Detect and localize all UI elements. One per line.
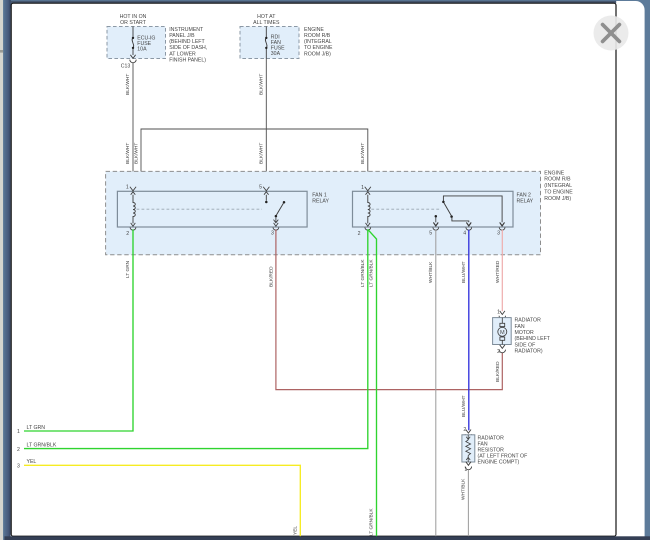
engine room R/B note text (relay block) bbox=[544, 170, 573, 202]
FAN1 relay coil bbox=[133, 195, 135, 224]
svg-text:SIDE OF DASH,: SIDE OF DASH, bbox=[169, 45, 207, 51]
FAN2 pin 2 connector bbox=[365, 223, 371, 230]
close button halo bbox=[594, 16, 629, 51]
instrument panel J/B note text bbox=[169, 27, 207, 64]
svg-text:(INTEGRAL: (INTEGRAL bbox=[544, 183, 572, 189]
svg-text:ENGINE COMPT): ENGINE COMPT) bbox=[478, 459, 520, 465]
wire WHT/BLK from FAN2 pin 5 down off-page bbox=[435, 230, 437, 536]
svg-text:5: 5 bbox=[429, 231, 432, 237]
FAN2 lead from arm to pin 4 bbox=[452, 218, 469, 223]
svg-text:AT LOWER: AT LOWER bbox=[169, 51, 196, 57]
wire YEL from node 3 down off-page bbox=[24, 465, 300, 536]
svg-text:WHT/RED: WHT/RED bbox=[495, 260, 501, 283]
FAN1 switch lower dot bbox=[275, 215, 278, 218]
resistor connector pin 2 bbox=[465, 430, 471, 438]
svg-text:ENGINE: ENGINE bbox=[304, 27, 324, 33]
svg-text:LT GRN/BLK: LT GRN/BLK bbox=[27, 442, 57, 448]
FAN2 fixed contact dot (pin 5 side) bbox=[435, 215, 438, 218]
wire LT GRN/BLK branch from FAN2 pin 2 down off-page bbox=[368, 229, 377, 536]
connector C13 symbol bbox=[130, 55, 136, 63]
wire WHT/BLK from resistor pin 1 down off-page bbox=[467, 470, 469, 536]
svg-text:4: 4 bbox=[463, 231, 466, 237]
instrument panel J/B dashed box bbox=[107, 27, 166, 59]
close button X glyph bbox=[603, 25, 620, 42]
fuse ECU-IG terminal dots bbox=[132, 37, 134, 39]
wire LT GRN/BLK from FAN2 pin 2 to node 2 bbox=[24, 229, 368, 448]
svg-text:BLU/WHT: BLU/WHT bbox=[461, 261, 467, 283]
FAN2 common feed from pin 3 (top route) bbox=[443, 196, 502, 222]
svg-text:ROOM J/B): ROOM J/B) bbox=[304, 51, 331, 57]
svg-text:BLU/WHT: BLU/WHT bbox=[461, 395, 467, 417]
FAN1 switch arm pivot dot bbox=[283, 201, 286, 204]
FAN1 pin 3 connector bbox=[273, 223, 279, 230]
svg-text:1: 1 bbox=[17, 429, 20, 435]
svg-text:3: 3 bbox=[17, 463, 20, 469]
svg-text:TO ENGINE: TO ENGINE bbox=[304, 45, 333, 51]
svg-text:BLK/WHT: BLK/WHT bbox=[133, 143, 139, 164]
svg-text:2: 2 bbox=[126, 231, 129, 237]
svg-text:ROOM J/B): ROOM J/B) bbox=[544, 196, 571, 202]
svg-text:FINISH PANEL): FINISH PANEL) bbox=[169, 58, 206, 64]
svg-text:YEL: YEL bbox=[27, 459, 37, 465]
FAN2 pin 3 connector bbox=[499, 223, 505, 230]
relay FAN 1 RELAY box bbox=[117, 191, 307, 227]
svg-text:WHT/BLK: WHT/BLK bbox=[428, 261, 434, 283]
svg-text:BLK/RED: BLK/RED bbox=[268, 266, 274, 287]
svg-text:5: 5 bbox=[259, 185, 262, 191]
svg-text:WHT/BLK: WHT/BLK bbox=[461, 478, 467, 500]
motor connector pin 2 bbox=[499, 345, 505, 353]
svg-text:(INTEGRAL: (INTEGRAL bbox=[304, 39, 332, 45]
svg-text:BLK/WHT: BLK/WHT bbox=[125, 143, 131, 164]
FAN1 pin 1 connector bbox=[130, 187, 136, 195]
scrollbar notch bbox=[0, 50, 3, 53]
navy bottom bar bbox=[5, 536, 650, 540]
node: HOT AT ALL TIMES feed label bbox=[253, 14, 280, 26]
FAN1 switch arm (open) bbox=[276, 203, 283, 215]
relay FAN 1 RELAY name label bbox=[312, 192, 329, 204]
svg-text:1: 1 bbox=[126, 185, 129, 191]
fuse RDI FAN terminal dots bbox=[265, 37, 267, 39]
FAN2 pin 4 connector bbox=[466, 223, 472, 230]
node: HOT IN ON OR START feed label bbox=[120, 14, 147, 26]
svg-text:FAN: FAN bbox=[515, 324, 525, 330]
resistor RADIATOR FAN RESISTOR box bbox=[462, 435, 475, 462]
FAN2 switch lower dot bbox=[450, 215, 453, 218]
svg-text:PANEL J/B: PANEL J/B bbox=[169, 33, 195, 39]
FAN1 pin 2 connector bbox=[130, 223, 136, 230]
motor RADIATOR FAN MOTOR box bbox=[493, 318, 512, 345]
FAN2 switch arm (closed toward pin 4) bbox=[444, 203, 451, 216]
fuse ECU-IG value label bbox=[137, 36, 155, 53]
FAN2 pin 3 arrowhead bbox=[500, 222, 505, 225]
svg-text:30A: 30A bbox=[271, 51, 281, 57]
FAN1 switch fixed contact from pin 5 bbox=[265, 195, 267, 201]
svg-text:MOTOR: MOTOR bbox=[515, 330, 534, 336]
left backdrop band gradient bbox=[3, 0, 11, 540]
FAN2 lead from contact to pin 5 with arrowhead bbox=[433, 218, 438, 226]
relay FAN 2 RELAY name label bbox=[517, 192, 534, 204]
fuse ECU-IG 10A symbol bbox=[132, 27, 134, 56]
relay FAN 2 RELAY box bbox=[353, 191, 514, 227]
svg-text:C13: C13 bbox=[121, 64, 131, 70]
engine room R/B dashed box (relay block) bbox=[106, 171, 541, 254]
svg-text:YEL: YEL bbox=[293, 526, 299, 535]
svg-text:1: 1 bbox=[361, 185, 364, 191]
svg-text:M: M bbox=[500, 330, 505, 336]
svg-text:(BEHIND LEFT: (BEHIND LEFT bbox=[515, 336, 551, 342]
svg-text:RADIATOR: RADIATOR bbox=[478, 435, 505, 441]
svg-text:LT GRN: LT GRN bbox=[125, 260, 131, 278]
browser scrollbar strip far left bbox=[0, 0, 3, 540]
wire BLK/WHT bus tee bbox=[141, 129, 368, 187]
wire BLU/WHT from FAN2 pin 4 to resistor pin 2 bbox=[468, 230, 470, 430]
svg-text:TO ENGINE: TO ENGINE bbox=[544, 190, 573, 196]
fuse RDI FAN 30A symbol bbox=[265, 27, 267, 59]
motor M symbol bbox=[498, 318, 507, 345]
top shadow line above diagram border bbox=[11, 1, 617, 3]
svg-text:OR START: OR START bbox=[120, 20, 147, 26]
FAN1 internal dashed link bbox=[137, 208, 263, 210]
svg-text:10A: 10A bbox=[137, 47, 147, 53]
engine room R/B fuse dashed box bbox=[240, 27, 299, 59]
FAN2 pin 5 connector bbox=[433, 223, 439, 230]
svg-text:LT GRN/BLK: LT GRN/BLK bbox=[369, 508, 375, 536]
svg-text:RELAY: RELAY bbox=[312, 198, 329, 204]
svg-text:SIDE OF: SIDE OF bbox=[515, 342, 536, 348]
svg-text:2: 2 bbox=[17, 447, 20, 453]
svg-text:ROOM R/B: ROOM R/B bbox=[544, 177, 571, 183]
svg-text:LT GRN/BLK: LT GRN/BLK bbox=[360, 259, 366, 287]
svg-text:BLK/WHT: BLK/WHT bbox=[125, 74, 131, 95]
FAN1 pin 5 connector bbox=[263, 187, 269, 195]
fuse RDI FAN value label bbox=[271, 35, 285, 58]
resistor note text bbox=[478, 435, 528, 465]
svg-text:LT GRN: LT GRN bbox=[27, 425, 46, 431]
wire BLK/WHT from RDI FAN fuse to FAN1 relay pin 5 bbox=[265, 59, 267, 187]
svg-text:RELAY: RELAY bbox=[517, 198, 534, 204]
svg-text:1: 1 bbox=[464, 467, 467, 473]
svg-text:3: 3 bbox=[271, 231, 274, 237]
engine room R/B note text (fuse) bbox=[304, 27, 333, 58]
svg-text:2: 2 bbox=[358, 231, 361, 237]
wire BLK/RED from FAN1 pin 3 to motor pin 2 bbox=[276, 229, 502, 389]
wire WHT/RED from FAN2 pin 3 to motor pin 1 bbox=[501, 230, 503, 311]
resistor zigzag symbol bbox=[466, 435, 471, 462]
svg-text:2: 2 bbox=[497, 349, 500, 355]
svg-text:BLK/WHT: BLK/WHT bbox=[360, 143, 366, 164]
svg-text:BLK/WHT: BLK/WHT bbox=[259, 74, 265, 95]
svg-text:ENGINE: ENGINE bbox=[544, 170, 564, 176]
svg-text:LT GRN/BLK: LT GRN/BLK bbox=[369, 259, 375, 287]
FAN2 pin 1 connector bbox=[365, 187, 371, 195]
wire segment diagonal into FAN1 pin 1 bbox=[134, 177, 141, 187]
FAN1 switch lead to pin 3 with arrowhead bbox=[274, 217, 279, 223]
svg-text:BLK/RED: BLK/RED bbox=[495, 361, 501, 382]
svg-text:ROOM R/B: ROOM R/B bbox=[304, 33, 331, 39]
svg-text:RADIATOR: RADIATOR bbox=[515, 317, 542, 323]
svg-text:RADIATOR): RADIATOR) bbox=[515, 348, 543, 354]
svg-text:1: 1 bbox=[497, 309, 500, 315]
FAN2 internal dashed link bbox=[371, 208, 440, 210]
svg-text:BLK/WHT: BLK/WHT bbox=[259, 143, 265, 164]
svg-text:INSTRUMENT: INSTRUMENT bbox=[169, 27, 204, 33]
FAN2 pin 4 arrowhead bbox=[466, 222, 471, 225]
svg-text:(BEHIND LEFT: (BEHIND LEFT bbox=[169, 39, 205, 45]
svg-text:3: 3 bbox=[497, 231, 500, 237]
motor connector pin 1 bbox=[499, 311, 505, 319]
svg-text:2: 2 bbox=[463, 427, 466, 433]
FAN2 switch pivot dot bbox=[442, 201, 445, 204]
wire BLK/WHT from C13 to FAN1 relay pin 1 bbox=[132, 63, 134, 187]
FAN1 switch contact dot (pin 5 side) bbox=[265, 201, 268, 204]
FAN2 relay coil bbox=[368, 195, 370, 224]
resistor connector pin 1 bbox=[465, 462, 471, 470]
svg-text:ALL TIMES: ALL TIMES bbox=[253, 20, 280, 26]
motor note text bbox=[515, 317, 551, 354]
wire LT GRN from FAN1 pin 2 to node 1 bbox=[24, 229, 133, 431]
svg-text:RESISTOR: RESISTOR bbox=[478, 447, 505, 453]
